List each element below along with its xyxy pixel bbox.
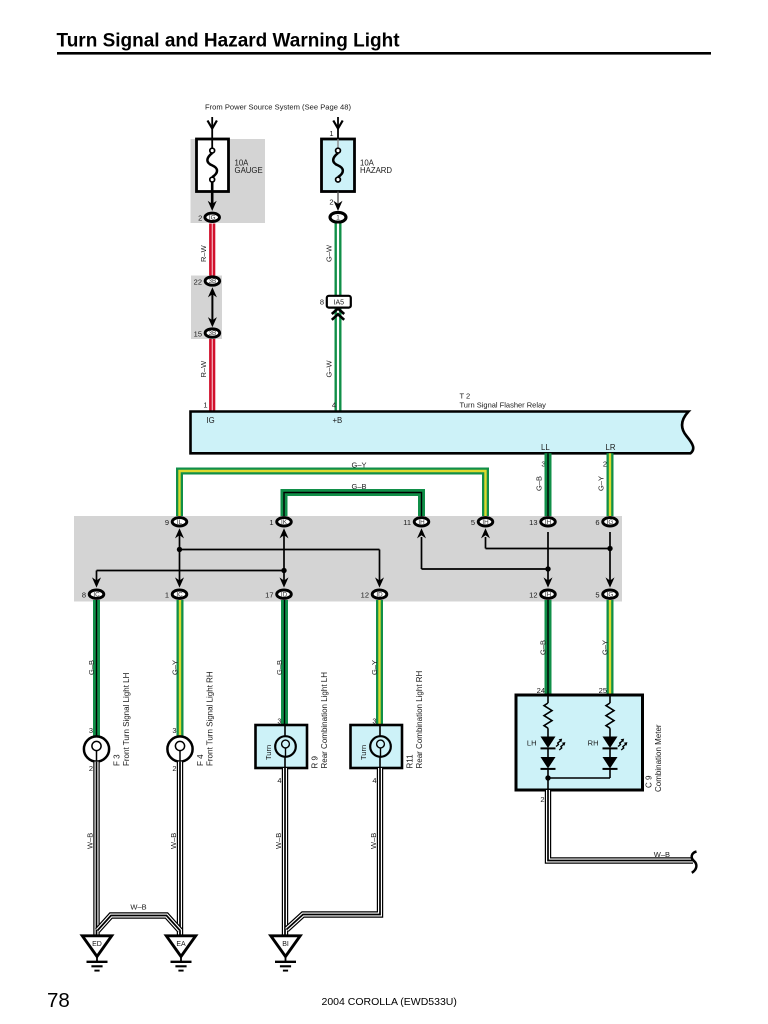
J/B net IK to 8 IC and 17 ID (92, 528, 289, 587)
svg-text:IA5: IA5 (334, 300, 345, 307)
power feed arrow right (333, 117, 342, 139)
svg-text:R 9: R 9 (311, 756, 320, 769)
svg-text:IG: IG (209, 215, 216, 222)
fuse block gray box (GAUGE) (191, 139, 266, 223)
connector 6 IG (595, 518, 617, 527)
J/B net IL to 1 IC and 12 ID (175, 528, 384, 587)
svg-text:G–B: G–B (275, 660, 284, 675)
svg-text:ED: ED (92, 941, 102, 948)
svg-text:5: 5 (595, 591, 599, 600)
link hazard fuse to terminal (337, 192, 339, 205)
svg-text:G–Y: G–Y (170, 660, 179, 675)
fuse 10A HAZARD (322, 139, 355, 192)
svg-text:3B: 3B (209, 278, 217, 285)
connector 9 IL (165, 518, 187, 527)
svg-text:13: 13 (529, 518, 537, 527)
svg-text:1: 1 (203, 401, 207, 410)
svg-text:G–B: G–B (87, 660, 96, 675)
svg-text:LH: LH (527, 739, 537, 748)
ground BI (271, 936, 300, 971)
wire G-B to F3 (93, 600, 100, 737)
svg-text:15: 15 (194, 329, 202, 338)
svg-text:IC: IC (93, 591, 100, 598)
svg-text:Turn: Turn (359, 745, 368, 760)
wire R-W upper segment (209, 224, 215, 277)
svg-text:1: 1 (165, 591, 169, 600)
wire tail break symbol (692, 852, 697, 873)
svg-text:From Power Source System (See: From Power Source System (See Page 48) (205, 103, 351, 112)
svg-text:78: 78 (47, 989, 70, 1012)
svg-text:G–Y: G–Y (370, 660, 379, 675)
arrow into IG terminal (208, 201, 217, 211)
svg-text:2004 COROLLA (EWD533U): 2004 COROLLA (EWD533U) (322, 996, 457, 1008)
wire G-B net from 11 IH to 1 IK (284, 493, 422, 518)
ground ED (82, 936, 111, 971)
wire G-Y to F4 (177, 600, 184, 737)
connector 1 IC (165, 590, 187, 600)
svg-text:F 4: F 4 (196, 754, 205, 766)
svg-text:W–B: W–B (274, 833, 283, 849)
connector 8 IC (82, 590, 104, 600)
resistor right branch (606, 695, 614, 737)
diode right branch (603, 757, 618, 778)
LED RH turn indicator (603, 737, 628, 758)
svg-text:2: 2 (89, 764, 93, 773)
svg-text:4: 4 (332, 401, 336, 410)
svg-text:3: 3 (172, 726, 176, 735)
svg-text:IG: IG (607, 591, 614, 598)
svg-text:ID: ID (376, 591, 383, 598)
svg-text:LR: LR (606, 443, 616, 452)
svg-text:5: 5 (471, 518, 475, 527)
svg-text:IG: IG (207, 416, 215, 425)
svg-text:Front Turn Signal Light RH: Front Turn Signal Light RH (206, 671, 215, 766)
junction link arrow both ends (208, 287, 217, 327)
wire W-B F4 to EA (177, 762, 183, 936)
svg-text:1: 1 (336, 215, 340, 222)
resistor left branch (544, 695, 552, 737)
svg-text:W–B: W–B (654, 850, 670, 859)
svg-text:1: 1 (269, 518, 273, 527)
connector 1 IK (269, 518, 291, 527)
svg-text:Turn Signal Flasher Relay: Turn Signal Flasher Relay (460, 401, 547, 410)
svg-text:Rear Combination Light LH: Rear Combination Light LH (320, 672, 329, 769)
svg-text:3B: 3B (209, 330, 217, 337)
svg-text:Turn: Turn (264, 745, 273, 760)
wire W-B meter to tail (548, 790, 693, 861)
junction connector 22 3B (194, 277, 220, 287)
title underline (57, 52, 711, 55)
svg-text:2: 2 (172, 764, 176, 773)
svg-text:F 3: F 3 (113, 754, 122, 766)
svg-text:R11: R11 (406, 754, 415, 769)
wire G-W full segment (335, 224, 342, 413)
svg-text:Combination Meter: Combination Meter (654, 724, 663, 792)
connector 17 ID (265, 590, 291, 600)
wire G-Y from relay LR to 6 IG (607, 453, 614, 517)
power feed arrow left (208, 117, 217, 139)
svg-text:11: 11 (403, 518, 411, 527)
connector chevrons (332, 309, 344, 320)
lamp F3 Front Turn Signal Light LH (84, 736, 109, 761)
junction block J/B gray band (74, 516, 622, 602)
J/B net 6 IG to 5 IH and 5 IG (481, 528, 615, 587)
junction connector gray box (191, 276, 222, 340)
wire W-B R9 to BI (282, 768, 288, 936)
svg-text:12: 12 (529, 591, 537, 600)
connector 11 IH (403, 518, 429, 527)
svg-text:2: 2 (329, 198, 333, 207)
svg-text:G–B: G–B (534, 476, 543, 491)
svg-text:1: 1 (329, 129, 333, 138)
svg-text:LL: LL (541, 443, 550, 452)
svg-text:2: 2 (198, 214, 202, 223)
svg-text:R–W: R–W (199, 360, 208, 378)
wire W-B jumper ED to EA (98, 916, 181, 931)
wire W-B R11 to BI (287, 768, 381, 930)
svg-text:G–W: G–W (325, 244, 334, 262)
svg-text:6: 6 (595, 518, 599, 527)
svg-text:IH: IH (545, 519, 552, 526)
wire G-Y to meter 25 (607, 600, 614, 695)
wire R-W lower segment (209, 338, 215, 412)
svg-text:22: 22 (194, 277, 202, 286)
svg-text:IK: IK (281, 519, 288, 526)
svg-text:W–B: W–B (85, 833, 94, 849)
svg-text:2: 2 (540, 795, 544, 804)
svg-text:GAUGE: GAUGE (235, 166, 263, 175)
junction connector 15 3B (194, 329, 220, 339)
svg-text:4: 4 (372, 776, 376, 785)
svg-text:8: 8 (320, 298, 324, 307)
J/B net 13 IH to 11 IH and 12 IH (417, 528, 553, 587)
svg-text:Front Turn Signal Light LH: Front Turn Signal Light LH (122, 672, 131, 766)
svg-text:W–B: W–B (130, 903, 146, 912)
svg-text:IC: IC (176, 591, 183, 598)
terminal 1 of hazard fuse (330, 212, 346, 222)
svg-text:HAZARD: HAZARD (360, 166, 392, 175)
svg-text:8: 8 (82, 591, 86, 600)
wire G-Y net from 5 IH to 9 IL (180, 471, 486, 517)
meter internal common wire (545, 775, 610, 790)
meter C9 Combination Meter box (516, 695, 643, 790)
svg-text:3: 3 (89, 726, 93, 735)
wire G-Y to R11 (376, 600, 383, 725)
svg-text:Rear Combination Light RH: Rear Combination Light RH (415, 670, 424, 768)
svg-text:G–Y: G–Y (596, 476, 605, 491)
relay T 2 Turn Signal Flasher Relay box (191, 412, 694, 454)
svg-text:T 2: T 2 (460, 392, 471, 401)
svg-text:G–Y: G–Y (351, 461, 366, 470)
svg-text:17: 17 (265, 591, 273, 600)
svg-text:G–Y: G–Y (600, 640, 609, 655)
svg-text:G–B: G–B (538, 640, 547, 655)
svg-text:G–W: G–W (325, 359, 334, 377)
svg-text:R–W: R–W (199, 244, 208, 262)
svg-text:IH: IH (418, 519, 425, 526)
svg-text:2: 2 (603, 460, 607, 469)
svg-text:W–B: W–B (169, 833, 178, 849)
svg-text:4: 4 (277, 776, 281, 785)
wire G-B from relay LL to 13 IH (545, 453, 552, 517)
svg-text:RH: RH (588, 739, 599, 748)
diode left branch (541, 757, 556, 778)
svg-text:Turn Signal and Hazard Warning: Turn Signal and Hazard Warning Light (57, 31, 401, 52)
connector 12 IH (529, 590, 555, 600)
svg-text:W–B: W–B (369, 833, 378, 849)
svg-text:+B: +B (333, 416, 343, 425)
terminal 2 IG of gauge fuse (198, 213, 219, 223)
fuse 10A GAUGE (197, 139, 229, 204)
wire G-B to meter 24 (545, 600, 552, 695)
svg-text:IL: IL (177, 519, 183, 526)
svg-text:G–B: G–B (351, 482, 366, 491)
wire G-B to R9 (281, 600, 288, 725)
arrow into hazard terminal (334, 201, 343, 211)
svg-text:ID: ID (281, 591, 288, 598)
svg-text:EA: EA (176, 941, 186, 948)
connector 8 IA5 (320, 296, 351, 308)
wire W-B F3 to ED (93, 762, 99, 936)
connector 13 IH (529, 518, 555, 527)
lamp F4 Front Turn Signal Light RH (167, 736, 192, 761)
connector 12 ID (361, 590, 387, 600)
svg-text:12: 12 (361, 591, 369, 600)
svg-text:9: 9 (165, 518, 169, 527)
svg-text:IH: IH (545, 591, 552, 598)
lamp R11 Rear Combination Light RH (351, 725, 403, 768)
lamp R9 Rear Combination Light LH (256, 725, 308, 768)
connector 5 IG (595, 590, 617, 600)
svg-text:IH: IH (482, 519, 489, 526)
svg-text:BI: BI (282, 941, 289, 948)
connector 5 IH (471, 518, 493, 527)
svg-text:C 9: C 9 (645, 775, 654, 788)
ground EA (166, 936, 195, 971)
LED LH turn indicator (541, 737, 566, 758)
svg-text:IG: IG (607, 519, 614, 526)
